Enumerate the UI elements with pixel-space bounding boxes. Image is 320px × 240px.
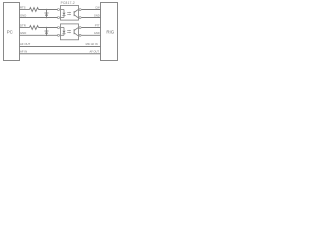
svg-text:PTT: PTT	[95, 24, 100, 28]
wire AF OUT	[20, 46, 101, 48]
junction dot D2 top	[46, 27, 48, 29]
U1 pin 2 circle	[58, 17, 60, 19]
svg-text:AF OUT: AF OUT	[89, 49, 99, 53]
optocoupler U2 box	[61, 24, 79, 40]
svg-text:GND: GND	[94, 14, 100, 18]
PC box	[4, 3, 20, 61]
wire DTR (PC to R2)	[20, 27, 30, 29]
U2 pin 2 circle	[58, 34, 60, 36]
svg-text:AF IN: AF IN	[20, 49, 27, 53]
wire AF IN	[20, 53, 101, 55]
U1 pin 3 circle	[79, 17, 81, 19]
U2 light arrows	[67, 30, 71, 33]
U1 pin 1 circle	[58, 9, 60, 11]
svg-text:AF OUT: AF OUT	[20, 42, 31, 46]
U2 LED	[61, 28, 66, 36]
svg-text:GND: GND	[20, 31, 26, 35]
wire GND return ch1	[20, 17, 58, 19]
junction dot D2 bottom	[46, 35, 48, 37]
U2 phototransistor	[74, 28, 78, 35]
resistor R1	[30, 8, 39, 12]
wire R1 to U1 anode	[39, 9, 58, 11]
U2 pin 4 circle	[79, 27, 81, 29]
svg-text:PC817-2: PC817-2	[61, 1, 75, 5]
U1 light arrows	[67, 12, 71, 15]
U1 pin 4 circle	[79, 9, 81, 11]
diode D2	[45, 28, 49, 36]
svg-text:DTR: DTR	[20, 24, 26, 28]
svg-text:PC: PC	[7, 29, 13, 34]
wire U1 collector to RIG	[81, 9, 100, 11]
wire U2 collector to RIG	[81, 27, 100, 29]
junction dot D1 top	[46, 9, 48, 11]
U2 pin 1 circle	[58, 27, 60, 29]
wire RTS (PC to R1)	[20, 9, 30, 11]
svg-text:MIC AF IN: MIC AF IN	[86, 42, 98, 46]
wire U2 emitter to RIG	[81, 34, 100, 36]
svg-text:RTS: RTS	[20, 6, 26, 10]
wire U1 emitter to RIG	[81, 17, 100, 19]
svg-text:RIG: RIG	[106, 29, 114, 34]
wire R2 to U2 anode	[39, 27, 58, 29]
U2 pin 3 circle	[79, 34, 81, 36]
optocoupler U1 box	[61, 6, 79, 21]
resistor R2	[30, 26, 39, 30]
wire GND return ch2	[20, 34, 58, 36]
diode D1	[45, 10, 49, 18]
U1 LED	[61, 10, 66, 18]
svg-text:GND: GND	[20, 14, 26, 18]
svg-text:CW: CW	[95, 6, 100, 10]
junction dot D1 bottom	[46, 17, 48, 19]
U1 phototransistor	[74, 10, 78, 17]
svg-text:GND: GND	[94, 31, 100, 35]
RIG box	[101, 3, 118, 61]
